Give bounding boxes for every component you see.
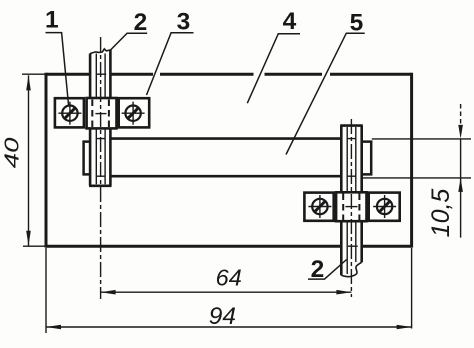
dim 94 arrows: [46, 325, 412, 330]
plate bottom edge thin dash through right tube: [348, 245, 358, 247]
right clamp center mark: [345, 206, 357, 208]
bar (item 5) top outline: [111, 137, 341, 140]
svg-text:2: 2: [134, 9, 148, 36]
dim 94 extension lines: [46, 248, 412, 333]
svg-text:10,5: 10,5: [427, 189, 455, 238]
dim 94 line: [46, 326, 412, 328]
left clamp hidden lines: [92, 100, 109, 128]
dim 10,5 upper arrow: [458, 125, 463, 139]
left tube (item 2) outer walls above clamp: [90, 50, 110, 99]
plate top edge thin dash through left tube: [97, 73, 107, 75]
svg-text:3: 3: [177, 9, 191, 36]
dim 64 arrows: [101, 290, 352, 295]
right tube (item 2) top end: [340, 124, 363, 127]
screw A (left clamp left): [58, 102, 81, 125]
label 4 shelf and leader: [247, 34, 300, 104]
svg-text:4: 4: [283, 8, 297, 35]
dim 40 line: [28, 75, 30, 245]
left clamp center block: [87, 98, 117, 128]
left tube outer walls below clamp: [90, 128, 110, 186]
screw C (right clamp left): [308, 195, 331, 218]
right tube outer walls below clamp: [341, 220, 361, 275]
dim 10,5 line upper: [460, 104, 462, 127]
bar edge dashes across left tube: [97, 139, 105, 177]
plate bottom edge: [46, 245, 412, 248]
label 2 bottom shelf and leader: [308, 260, 347, 280]
left tube broken top edge: [90, 49, 110, 54]
svg-text:94: 94: [209, 303, 236, 330]
svg-text:2: 2: [311, 256, 325, 283]
right clamp left bracket: [304, 193, 333, 221]
dim 40 arrows: [26, 75, 31, 245]
svg-text:5: 5: [350, 9, 364, 36]
right tube centerline / 64 extension line: [350, 119, 352, 297]
plate (item 4) top edge: [46, 73, 412, 76]
label 3 shelf and leader: [147, 33, 194, 95]
right tube broken bottom edge: [341, 262, 361, 276]
plate left edge: [45, 73, 48, 248]
dim 10,5 line middle: [460, 139, 462, 178]
left clamp left bracket (item 1 area): [55, 98, 84, 127]
right clamp center block: [336, 192, 366, 221]
screw D (right clamp right): [373, 195, 396, 218]
svg-text:64: 64: [216, 264, 242, 290]
dim 10,5 extension lines: [363, 139, 471, 178]
label 1 shelf and leader: [46, 33, 69, 105]
bar edge dashes across right tube: [347, 139, 355, 177]
right clamp right bracket: [369, 193, 400, 221]
bar left end cap: [84, 142, 91, 175]
left tube inner walls: [96, 54, 105, 185]
dim 40 extension lines: [22, 74, 46, 246]
left tube centerline / 64 extension line: [100, 37, 102, 299]
left clamp right bracket (item 3): [119, 98, 150, 127]
right tube inner walls: [347, 127, 356, 274]
bar right end cap: [361, 142, 371, 175]
screw B (left clamp right): [122, 102, 145, 125]
left clamp center mark: [95, 113, 106, 115]
svg-text:1: 1: [45, 7, 59, 34]
bar bottom outline: [111, 175, 341, 178]
dim 10,5 line lower: [460, 178, 462, 238]
dim 10,5 lower arrow: [458, 178, 463, 192]
svg-text:40: 40: [1, 137, 24, 168]
right clamp hidden lines: [343, 194, 359, 221]
dim 64 line: [101, 291, 352, 293]
label 5 shelf and leader: [286, 33, 365, 154]
label 2 shelf and leader: [111, 33, 148, 50]
left tube bottom end: [89, 185, 112, 188]
right tube outer walls above clamp: [341, 126, 361, 193]
plate right edge: [410, 73, 413, 248]
